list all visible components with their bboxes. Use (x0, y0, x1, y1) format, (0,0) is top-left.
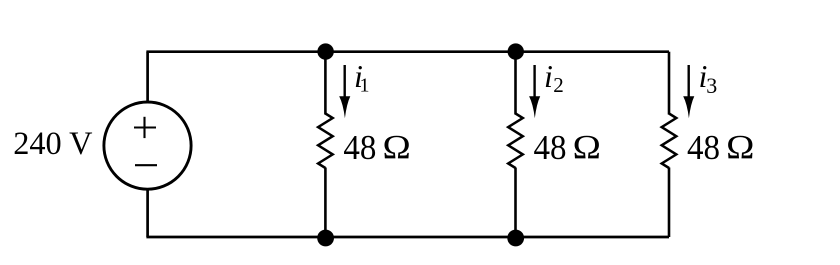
svg-text:Ω: Ω (383, 128, 411, 166)
wire left vertical upper (source to top bus) (146, 52, 149, 103)
resistor R2 zigzag (508, 114, 523, 169)
current arrow i2 (529, 65, 540, 118)
svg-text:48: 48 (687, 128, 720, 167)
svg-text:3: 3 (706, 73, 717, 98)
resistor R1 zigzag (318, 114, 333, 169)
voltage source V1 circle (104, 102, 191, 189)
wire lower lead of R1 (324, 168, 327, 238)
wire bottom bus (146, 236, 669, 239)
svg-text:Ω: Ω (573, 128, 601, 166)
svg-text:240 V: 240 V (13, 126, 92, 162)
svg-text:2: 2 (553, 73, 564, 97)
resistor R3 zigzag (662, 114, 677, 169)
wire right vertical lower lead of R3 (668, 168, 671, 238)
node D bottom junction dot (507, 230, 524, 247)
svg-text:1: 1 (360, 75, 370, 97)
wire top bus (146, 50, 669, 53)
svg-text:48: 48 (343, 128, 376, 167)
node C bottom junction dot (317, 230, 334, 247)
voltage source plus sign (134, 117, 156, 138)
voltage source minus sign (135, 164, 157, 166)
current arrow i3 (683, 65, 694, 118)
node B top junction dot (508, 43, 524, 59)
wire lower lead of R2 (514, 168, 517, 238)
svg-text:Ω: Ω (726, 128, 754, 166)
wire right vertical upper lead of R3 (668, 52, 671, 115)
current arrow i1 (339, 65, 350, 118)
wire upper lead of R2 (514, 52, 517, 115)
svg-text:48: 48 (534, 128, 567, 167)
svg-text:i: i (544, 58, 553, 94)
wire left vertical lower (source to bottom bus) (146, 189, 149, 238)
wire upper lead of R1 (324, 52, 327, 115)
node A top junction dot (317, 43, 333, 59)
